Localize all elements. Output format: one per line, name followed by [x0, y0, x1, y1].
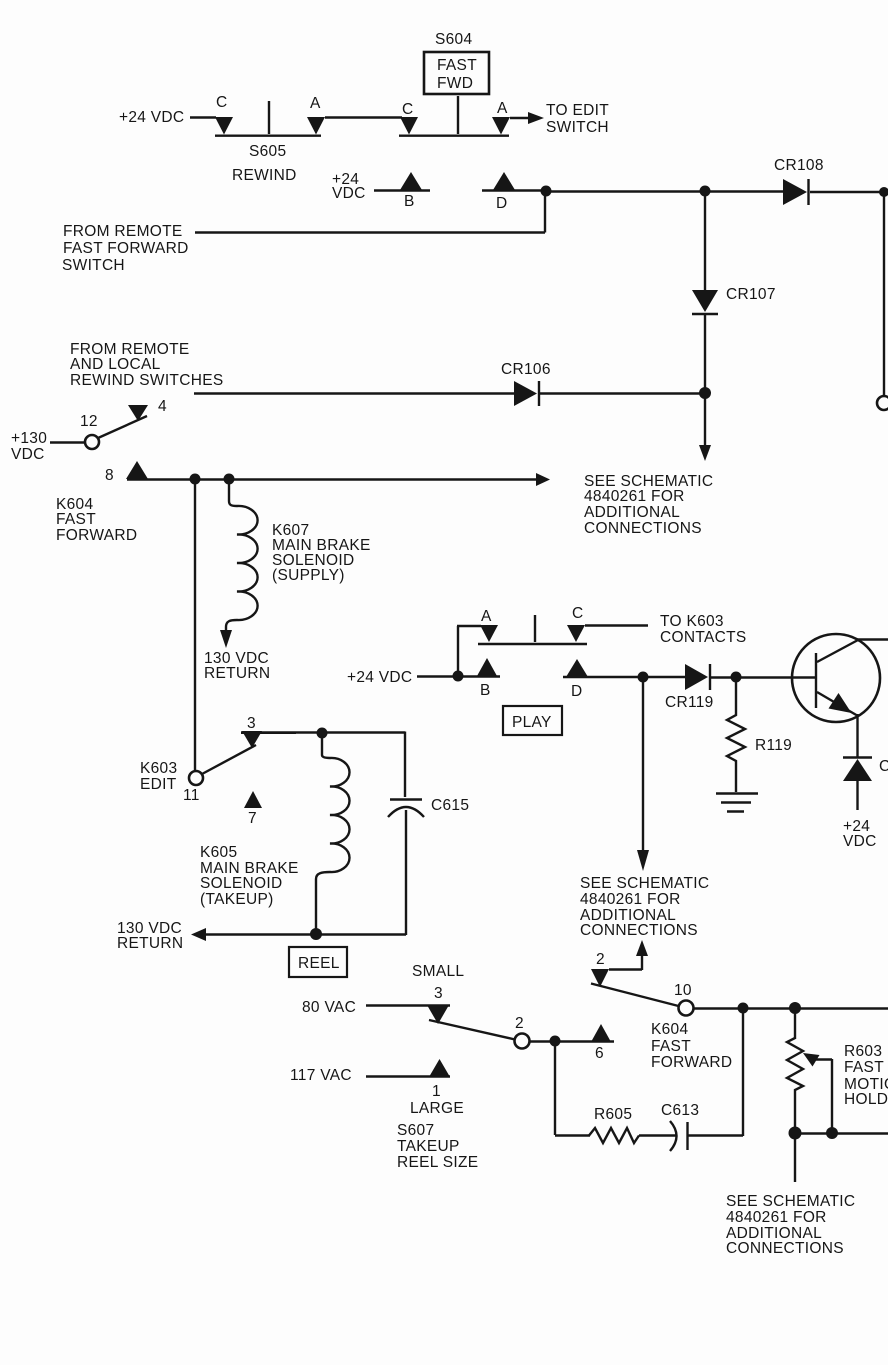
svg-text:LARGE: LARGE — [410, 1100, 464, 1117]
switch S607 contact (pin 1) — [429, 1059, 450, 1077]
svg-text:1: 1 — [432, 1083, 441, 1100]
wire up to contact A — [457, 626, 481, 676]
svg-text:C: C — [216, 94, 228, 111]
wire — [711, 676, 815, 678]
wire — [563, 676, 687, 678]
relay K604 contact (pin 6) — [591, 1024, 611, 1042]
svg-text:CR: CR — [879, 758, 888, 775]
node junction dot — [541, 186, 552, 197]
node junction dot — [826, 1127, 838, 1139]
wire — [704, 315, 706, 389]
relay K603 contact (pin 7) — [244, 791, 262, 808]
node junction dot — [738, 1003, 749, 1014]
wire emitter down — [856, 714, 858, 758]
switch S605 contact C (pin C) — [215, 117, 233, 135]
relay K604 contact (pin 8) — [126, 461, 148, 479]
capacitor C615 top plate — [390, 798, 422, 800]
node junction dot — [453, 671, 464, 682]
arrowhead — [699, 445, 711, 461]
svg-text:C613: C613 — [661, 1102, 699, 1119]
svg-text:FAST: FAST — [437, 57, 477, 74]
wire — [482, 189, 548, 191]
svg-text:+24 VDC: +24 VDC — [347, 669, 412, 686]
130 VDC return wire with left arrow — [205, 933, 406, 935]
wire down to see schematic — [794, 1133, 796, 1182]
wire — [366, 1075, 450, 1077]
svg-text:SOLENOID: SOLENOID — [200, 875, 283, 892]
svg-text:B: B — [404, 193, 415, 210]
transistor Q1 circle — [792, 634, 880, 722]
arrowhead 130 VDC return — [220, 630, 232, 648]
node junction dot — [638, 672, 649, 683]
wire — [417, 675, 500, 677]
svg-text:C: C — [572, 605, 584, 622]
arrowhead — [637, 850, 649, 871]
wire down with arrow to see schematic — [642, 677, 644, 851]
wire R603 branch — [794, 1008, 796, 1039]
diode CR119 — [685, 664, 708, 690]
wire to see-schematic arrow — [127, 478, 536, 480]
relay K604 contact pivot circle (pin 12) — [85, 435, 99, 449]
svg-text:TO EDIT: TO EDIT — [546, 102, 609, 119]
svg-text:A: A — [497, 100, 508, 117]
svg-text:SWITCH: SWITCH — [62, 257, 125, 274]
svg-text:10: 10 — [674, 982, 692, 999]
svg-text:FORWARD: FORWARD — [651, 1054, 732, 1071]
wire rewind to CR106 — [194, 392, 514, 394]
wire down to K603 — [194, 479, 196, 770]
svg-text:AND LOCAL: AND LOCAL — [70, 356, 161, 373]
svg-text:4: 4 — [158, 398, 167, 415]
svg-text:TO K603: TO K603 — [660, 613, 724, 630]
wire — [374, 189, 430, 191]
node junction dot — [190, 474, 201, 485]
svg-text:REEL SIZE: REEL SIZE — [397, 1154, 478, 1171]
svg-text:K604: K604 — [651, 1021, 688, 1038]
actuator tick S605 — [268, 101, 270, 134]
arrowhead — [636, 940, 648, 956]
relay K603 movable arm — [202, 745, 256, 774]
svg-text:VDC: VDC — [843, 833, 877, 850]
relay K603 contact (pin 3) — [242, 731, 262, 748]
svg-text:11: 11 — [183, 787, 200, 804]
wire — [639, 1134, 676, 1136]
wire — [688, 1008, 744, 1136]
PLAY box — [503, 706, 562, 735]
svg-text:7: 7 — [248, 810, 257, 827]
svg-text:RETURN: RETURN — [204, 665, 270, 682]
svg-text:REWIND: REWIND — [232, 167, 297, 184]
relay K604 contact (pin 2) — [591, 969, 609, 987]
node junction dot — [699, 387, 711, 399]
S604 FAST FWD box — [424, 52, 489, 94]
svg-text:80 VAC: 80 VAC — [302, 999, 356, 1016]
wire C615 branch — [404, 732, 406, 798]
transistor base bar — [815, 653, 817, 708]
svg-text:8: 8 — [105, 467, 114, 484]
wire to K603 contacts — [585, 624, 648, 626]
svg-text:S605: S605 — [249, 143, 286, 160]
coil K605 main brake solenoid takeup — [316, 733, 350, 930]
relay contact D — [566, 659, 588, 677]
svg-text:CONNECTIONS: CONNECTIONS — [584, 520, 702, 537]
transistor collector — [817, 640, 888, 663]
node junction dot — [550, 1036, 561, 1047]
capacitor C613 curved plate — [670, 1121, 677, 1151]
diode CR106 — [514, 381, 537, 406]
wire — [325, 116, 402, 118]
arrowhead — [191, 928, 206, 941]
actuator tick S604 — [457, 96, 459, 134]
relay contact B — [477, 658, 497, 676]
svg-text:3: 3 — [247, 715, 256, 732]
ground — [716, 792, 758, 794]
relay K604 contact (pin 4) — [128, 405, 148, 421]
wire — [810, 192, 884, 396]
svg-text:(TAKEUP): (TAKEUP) — [200, 891, 274, 908]
svg-text:CONNECTIONS: CONNECTIONS — [580, 922, 698, 939]
svg-text:K603: K603 — [140, 760, 177, 777]
svg-text:ADDITIONAL: ADDITIONAL — [584, 504, 680, 521]
wire with down arrow — [704, 397, 706, 446]
potentiometer wiper arrow — [803, 1053, 820, 1067]
svg-text:4840261 FOR: 4840261 FOR — [726, 1209, 827, 1226]
svg-text:3: 3 — [434, 985, 443, 1002]
node junction dot — [317, 728, 328, 739]
svg-text:4840261 FOR: 4840261 FOR — [580, 891, 681, 908]
relay K603 pivot circle (pin 11) — [189, 771, 203, 785]
wire — [190, 116, 216, 118]
wire — [694, 1007, 888, 1009]
switch S604 contact B (pin B) — [400, 172, 422, 190]
svg-text:VDC: VDC — [332, 185, 366, 202]
wire from remote fast forward switch — [195, 191, 545, 233]
svg-text:C615: C615 — [431, 797, 469, 814]
wire — [366, 1004, 450, 1006]
svg-text:2: 2 — [515, 1015, 524, 1032]
svg-text:CR106: CR106 — [501, 361, 551, 378]
svg-text:SEE SCHEMATIC: SEE SCHEMATIC — [580, 875, 709, 892]
svg-text:FAST FORWARD: FAST FORWARD — [63, 240, 189, 257]
wire — [795, 1132, 888, 1134]
svg-text:FAST: FAST — [56, 511, 96, 528]
svg-text:(SUPPLY): (SUPPLY) — [272, 567, 345, 584]
svg-text:FORWARD: FORWARD — [56, 527, 137, 544]
node junction dot — [789, 1127, 802, 1140]
terminal circle — [877, 396, 888, 410]
wire to CR108 — [546, 190, 783, 192]
svg-text:R605: R605 — [594, 1106, 632, 1123]
svg-text:SEE SCHEMATIC: SEE SCHEMATIC — [726, 1193, 855, 1210]
switch S607 movable arm — [429, 1020, 515, 1040]
switch S604 contact C (pin C) — [400, 117, 418, 135]
svg-text:CR107: CR107 — [726, 286, 776, 303]
wire — [405, 810, 407, 935]
svg-text:CR108: CR108 — [774, 157, 824, 174]
switch S604 contact D (pin D) — [493, 172, 515, 190]
relay K604 pivot circle (pin 10) — [679, 1001, 694, 1016]
node junction dot — [731, 672, 742, 683]
svg-text:12: 12 — [80, 413, 98, 430]
svg-text:HOLDING: HOLDING — [844, 1091, 888, 1108]
wire — [540, 392, 701, 394]
svg-text:R119: R119 — [755, 737, 792, 754]
svg-text:D: D — [571, 683, 583, 700]
node junction dot — [879, 187, 888, 197]
svg-text:FWD: FWD — [437, 75, 473, 92]
switch S604 contact A (pin A) — [492, 117, 510, 135]
diode CR108 — [783, 179, 807, 205]
svg-text:REEL: REEL — [298, 955, 340, 972]
svg-text:S607: S607 — [397, 1122, 434, 1139]
svg-text:FROM REMOTE: FROM REMOTE — [63, 223, 183, 240]
switch S607 pivot circle (pin 2) — [515, 1034, 530, 1049]
wire — [50, 441, 85, 443]
svg-text:A: A — [481, 608, 492, 625]
relay K603 play contact A — [480, 625, 498, 642]
svg-text:B: B — [480, 682, 491, 699]
svg-text:CONNECTIONS: CONNECTIONS — [726, 1240, 844, 1257]
arrowhead — [536, 473, 550, 486]
switch S607 contact (pin 3) — [427, 1005, 449, 1024]
svg-text:RETURN: RETURN — [117, 935, 183, 952]
arrowhead — [528, 112, 544, 124]
relay K604 movable arm — [591, 984, 679, 1007]
actuator tick PLAY — [534, 615, 536, 642]
svg-text:CONTACTS: CONTACTS — [660, 629, 747, 646]
wire with arrow to edit switch — [510, 117, 528, 119]
wire — [530, 1040, 614, 1042]
svg-text:2: 2 — [596, 951, 605, 968]
svg-text:REWIND SWITCHES: REWIND SWITCHES — [70, 372, 223, 389]
svg-text:+24 VDC: +24 VDC — [119, 109, 184, 126]
svg-text:6: 6 — [595, 1045, 604, 1062]
node junction dot — [789, 1002, 801, 1014]
coil K607 main brake solenoid supply — [226, 479, 258, 632]
svg-text:VDC: VDC — [11, 446, 45, 463]
svg-text:EDIT: EDIT — [140, 776, 177, 793]
svg-text:S604: S604 — [435, 31, 472, 48]
potentiometer R603 — [787, 1038, 803, 1133]
contact bar S605 — [215, 134, 321, 136]
svg-text:TAKEUP: TAKEUP — [397, 1138, 460, 1155]
svg-text:CR119: CR119 — [665, 694, 714, 711]
wire with up arrow — [609, 955, 642, 970]
svg-text:FAST: FAST — [651, 1038, 691, 1055]
svg-text:117 VAC: 117 VAC — [290, 1067, 352, 1084]
svg-text:C: C — [402, 101, 414, 118]
svg-text:SWITCH: SWITCH — [546, 119, 609, 136]
wire down to CR107 — [704, 191, 706, 291]
node junction dot — [224, 474, 235, 485]
capacitor C613 straight plate — [686, 1122, 688, 1150]
svg-text:SMALL: SMALL — [412, 963, 464, 980]
REEL box — [289, 947, 347, 977]
node junction dot — [700, 186, 711, 197]
wire from contact 3 — [241, 731, 405, 733]
resistor R119 — [727, 682, 745, 792]
resistor R605 — [589, 1128, 639, 1143]
svg-text:K605: K605 — [200, 844, 237, 861]
transistor emitter — [817, 692, 858, 716]
wire down from pin 2 node — [555, 1041, 590, 1136]
diode CR107 — [692, 290, 718, 312]
svg-text:4840261 FOR: 4840261 FOR — [584, 488, 685, 505]
svg-text:R603: R603 — [844, 1043, 882, 1060]
relay K604 movable arm — [98, 416, 147, 438]
node junction dot — [310, 928, 322, 940]
wiper wire — [812, 1059, 832, 1128]
svg-text:A: A — [310, 95, 321, 112]
capacitor C615 curved plate — [388, 807, 424, 817]
svg-text:+130: +130 — [11, 430, 47, 447]
svg-text:PLAY: PLAY — [512, 714, 552, 731]
svg-text:D: D — [496, 195, 508, 212]
diode CR (cut off at edge) — [843, 756, 872, 758]
svg-text:FAST: FAST — [844, 1059, 884, 1076]
contact bar PLAY — [478, 643, 587, 645]
relay K603 play contact C — [567, 625, 585, 642]
emitter arrowhead — [829, 693, 852, 713]
switch S605 contact A (pin A) — [307, 117, 325, 135]
contact bar S604 — [399, 134, 509, 136]
